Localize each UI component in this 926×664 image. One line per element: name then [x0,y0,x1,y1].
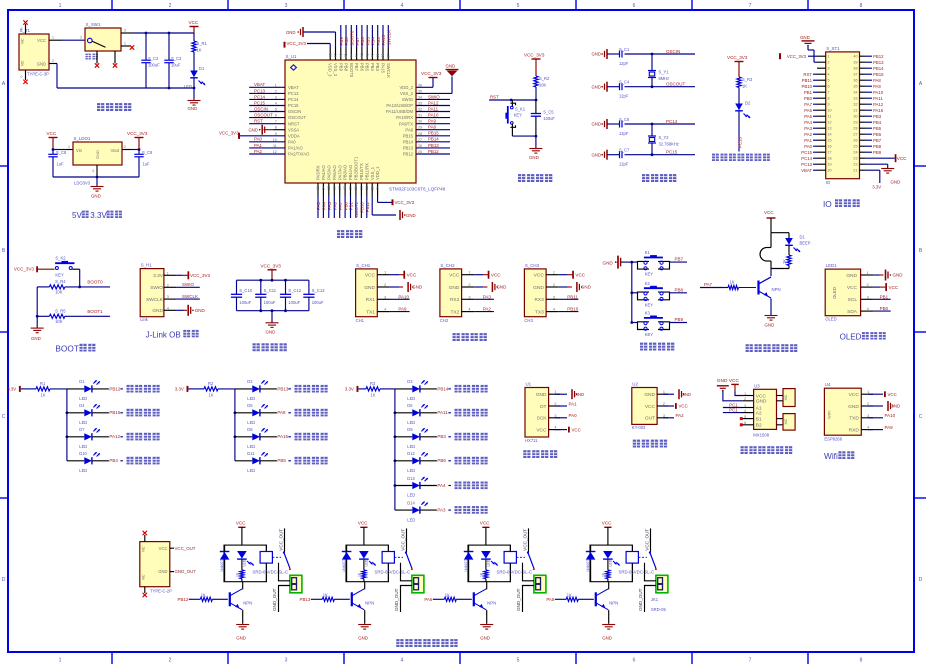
svg-text:32: 32 [853,103,857,107]
svg-text:GND: GND [446,63,456,68]
svg-text:LED: LED [407,396,415,401]
svg-text:LED: LED [243,559,247,566]
svg-text:PA10/RX: PA10/RX [396,115,413,120]
svg-text:1K: 1K [371,393,376,398]
svg-text:GND: GND [591,152,601,157]
svg-text:K1: K1 [645,250,651,255]
svg-text:VSSA: VSSA [288,127,299,132]
svg-text:D: D [919,577,923,583]
pushbutton K2 [55,262,74,264]
svg-text:PB3: PB3 [376,37,381,46]
connector JK (green) [412,575,424,593]
svg-text:KEY: KEY [55,272,64,277]
svg-text:GND: GND [846,273,857,279]
capacitor C8 [52,148,55,151]
CH1 pin3 net PA10 [390,298,410,300]
svg-text:CH3: CH3 [524,318,533,323]
svg-text:PA6: PA6 [804,108,812,113]
svg-text:7: 7 [275,120,277,124]
svg-text:PA8: PA8 [428,125,437,130]
svg-text:GND: GND [800,35,810,40]
svg-text:MX1508: MX1508 [753,433,770,438]
net PA8 [260,412,277,414]
OLED pin3 PB1 [874,298,891,300]
svg-text:PB4: PB4 [370,63,375,72]
svg-text:IO: IO [823,199,832,209]
resistor R3 [737,77,741,88]
U4 pin1 VCC [868,393,883,395]
svg-text:31: 31 [853,109,857,113]
LED D1 BEEP [788,233,790,238]
svg-text:GND_OUT: GND_OUT [638,588,643,611]
ST1 pin 23 to VCC [865,157,895,159]
svg-text:LED: LED [487,559,491,566]
LED D4 [67,412,84,414]
svg-text:5: 5 [275,108,277,112]
emitter wire to ground [608,610,610,624]
svg-text:4: 4 [401,658,404,664]
svg-text:WIFI: WIFI [827,411,832,419]
caption 滤波电路 [253,343,260,351]
svg-text:3: 3 [384,295,386,299]
svg-text:1: 1 [167,271,169,275]
svg-text:PB15: PB15 [873,72,884,77]
svg-text:45: 45 [344,54,348,58]
svg-text:GND_OUT: GND_OUT [516,588,521,611]
header ST1 [826,52,860,179]
caption 开关 [86,54,91,60]
svg-text:1: 1 [554,390,556,394]
svg-text:SWIO: SWIO [182,282,194,287]
svg-text:VCC: VCC [449,273,460,279]
motor connector B [777,418,784,420]
wire T1 to SW1 [62,39,85,41]
CH2 pin3 net PA3 [474,298,494,300]
svg-text:PA7: PA7 [704,282,713,287]
svg-text:PA5: PA5 [546,597,555,602]
svg-text:11: 11 [828,115,832,119]
svg-text:SRD-05VDC-SL-C: SRD-05VDC-SL-C [497,570,533,575]
svg-text:PA9: PA9 [428,119,437,124]
relay box outline [224,545,266,582]
svg-text:VCC: VCC [645,404,656,410]
svg-text:46: 46 [339,54,343,58]
U1 pin1 GND [555,393,567,395]
svg-text:8: 8 [860,658,863,664]
svg-text:LED: LED [79,468,87,473]
svg-text:VCC: VCC [47,131,57,136]
T1 pin 1 VCC wire [49,39,62,41]
buzzer BEEP [770,233,772,248]
svg-text:S_H1: S_H1 [141,263,153,268]
svg-text:12pF: 12pF [619,162,629,167]
svg-text:PA0: PA0 [254,137,263,142]
keys left rail [631,262,633,322]
svg-text:NC: NC [141,546,146,552]
caption 红灯电路 [127,385,134,393]
svg-text:BEEP: BEEP [800,241,811,246]
svg-text:PA7: PA7 [804,102,812,107]
svg-text:GND: GND [358,635,368,640]
svg-text:S_C10: S_C10 [239,288,252,293]
svg-text:100uF: 100uF [543,116,555,121]
svg-text:PA10: PA10 [398,294,409,299]
svg-text:SCL: SCL [848,297,858,303]
svg-text:1: 1 [867,390,869,394]
OLED pin2 VCC [874,286,880,288]
CH1 pin1 VCC [390,274,399,276]
U3 pin6 unconnected [742,424,754,426]
net PB9 [670,322,688,324]
svg-text:VSS_1: VSS_1 [370,166,375,180]
svg-text:1K: 1K [201,592,206,597]
svg-text:D5: D5 [247,403,253,408]
caption 绿灯电路 [127,433,134,441]
svg-text:ESP8266: ESP8266 [824,436,842,441]
ST1 pin 22 to GND [865,163,888,165]
caption 黄灯电路 [295,409,302,417]
CH3 pin3 net PB11 [559,298,579,300]
svg-text:SCK: SCK [537,416,548,422]
svg-text:OSCIN: OSCIN [666,49,680,54]
svg-text:PA12: PA12 [428,100,439,105]
svg-text:PB0: PB0 [343,201,348,210]
caption 黄灯电路 [127,409,134,417]
wire relay switch to connector [401,563,412,581]
svg-text:VCC_3V3: VCC_3V3 [395,200,415,205]
transistor NPN (relay) [595,592,597,606]
svg-text:3: 3 [92,169,94,173]
svg-text:LED: LED [407,420,415,425]
svg-text:PA0: PA0 [288,139,296,144]
U4 pin4 PA9 [868,429,883,431]
svg-text:GND: GND [158,569,167,574]
svg-text:VCC: VCC [572,427,581,432]
svg-text:GND: GND [529,155,539,160]
svg-text:PA1: PA1 [804,138,812,143]
svg-text:Vout: Vout [111,148,120,153]
svg-text:GND: GND [95,150,100,159]
svg-text:11: 11 [273,144,277,148]
svg-text:18: 18 [828,157,832,161]
svg-text:GND_OUT: GND_OUT [272,588,277,611]
LED D2 [235,388,252,390]
svg-text:38: 38 [381,54,385,58]
svg-text:PB4: PB4 [371,37,376,46]
svg-text:PB14: PB14 [437,386,449,391]
svg-text:GND: GND [364,285,375,291]
svg-text:S_R3: S_R3 [742,77,753,82]
svg-text:OLED: OLED [840,333,862,342]
svg-text:2: 2 [867,283,869,287]
svg-text:1: 1 [663,390,665,394]
svg-text:15: 15 [828,139,832,143]
svg-text:37: 37 [386,54,390,58]
svg-text:D: D [2,577,6,583]
base resistor 1K [555,598,567,600]
svg-text:PC15: PC15 [666,150,678,155]
svg-text:PB15: PB15 [109,410,121,415]
svg-text:GND: GND [765,323,775,328]
svg-text:PB12: PB12 [873,54,884,59]
capacitor C3 [168,33,170,60]
svg-text:S_LDO1: S_LDO1 [74,136,91,141]
svg-text:PA2: PA2 [676,413,685,418]
MCU U1 STM32F103C6T6 [285,60,416,183]
relay switch [406,528,408,552]
wire K2 to BOOT0 [72,268,79,270]
svg-text:2: 2 [124,145,126,149]
H1 pin3 SWCLK [176,298,200,300]
svg-text:PB12: PB12 [109,386,121,391]
svg-text:VSS_2: VSS_2 [400,91,414,96]
svg-text:3.3V: 3.3V [872,185,881,190]
svg-text:PB3: PB3 [437,434,446,439]
svg-text:4: 4 [468,308,470,312]
net PB3 [420,436,437,438]
svg-text:1: 1 [124,41,126,45]
U1 pin4 VCC [555,429,567,431]
svg-text:VDD_1: VDD_1 [375,166,380,180]
relay switch [650,528,652,552]
svg-text:PA10: PA10 [873,90,884,95]
T1 bottom pin with no-connect [25,70,27,80]
svg-text:4: 4 [828,73,830,77]
svg-text:23: 23 [853,157,857,161]
svg-text:PB2/BOOT1: PB2/BOOT1 [354,156,359,180]
transistor NPN (relay) [229,592,231,606]
U3 pin2 wire to GND [723,391,742,401]
svg-text:PA12: PA12 [109,434,120,439]
svg-text:B1: B1 [756,417,762,423]
frame row ticks [0,165,8,167]
frame column ticks [111,0,113,10]
MCU pin 8 VSSA ground [264,129,274,131]
svg-text:GND: GND [893,273,904,278]
svg-text:GND: GND [848,404,859,410]
svg-text:SWCLK: SWCLK [182,294,198,299]
svg-text:3: 3 [867,414,869,418]
relay box outline [468,545,510,582]
svg-text:1K: 1K [602,572,606,577]
header CH2 [440,269,462,317]
svg-text:100uF: 100uF [148,63,160,68]
svg-text:2: 2 [52,59,54,63]
svg-text:1K: 1K [197,48,202,53]
svg-text:NPN: NPN [365,601,374,606]
H1 pin4 GND [176,309,183,311]
transistor NPN (relay) [473,592,475,606]
svg-text:VCC: VCC [189,20,199,25]
relay LED [603,551,613,559]
svg-text:12: 12 [828,121,832,125]
svg-text:S_C13: S_C13 [312,288,325,293]
svg-text:S_R4: S_R4 [55,279,66,284]
svg-text:PC14: PC14 [288,97,299,102]
svg-text:LED: LED [609,559,613,566]
reset bottom rail [512,135,536,137]
VSS_1 to GND (bottom) [371,196,373,216]
svg-text:BOOT1: BOOT1 [354,201,359,216]
caption 蓝灯电路 [127,457,134,465]
svg-text:VCC: VCC [575,272,585,277]
svg-text:PC15: PC15 [254,100,266,105]
svg-text:20: 20 [828,169,832,173]
svg-text:1K: 1K [41,393,46,398]
svg-text:13: 13 [316,186,320,190]
svg-text:OSCIN: OSCIN [254,106,268,111]
svg-text:GND: GND [591,122,601,127]
svg-text:VCC: VCC [365,273,376,279]
svg-text:GND: GND [891,404,901,409]
svg-text:PB12: PB12 [178,597,189,602]
U1 pin2 PA1 [555,405,567,407]
svg-text:PA11: PA11 [437,410,448,415]
svg-text:25: 25 [418,150,422,154]
svg-text:PB12: PB12 [428,149,439,154]
svg-text:D1: D1 [199,66,205,71]
svg-text:10uF: 10uF [171,63,181,68]
svg-text:VCC_3V3: VCC_3V3 [127,131,148,136]
svg-text:PA0: PA0 [569,413,578,418]
svg-text:1K: 1K [358,572,362,577]
svg-text:STM32F103C6T6_LQFP48: STM32F103C6T6_LQFP48 [389,187,446,192]
LED D13 [395,485,412,487]
pushbutton K2 [632,292,638,294]
svg-text:TXD: TXD [849,416,859,422]
svg-text:3: 3 [275,95,277,99]
CH2 pin4 net PA2 [474,311,494,313]
svg-text:PA3: PA3 [804,126,812,131]
svg-text:S_K2: S_K2 [55,256,66,261]
resistor R2 1K [204,387,218,391]
wire relay switch to connector [523,563,534,581]
svg-text:100uF: 100uF [288,300,300,305]
CH2 pin1 VCC [474,274,483,276]
svg-text:2: 2 [167,283,169,287]
CH1 pin4 net PA9 [390,311,410,313]
U2 pin1 GND [663,393,674,395]
svg-text:VCC: VCC [536,428,547,434]
svg-text:VCC_OUT: VCC_OUT [279,529,284,551]
svg-text:3: 3 [285,3,288,9]
svg-text:PB10: PB10 [360,201,365,212]
svg-text:1K: 1K [782,259,787,264]
relay coil [265,545,267,551]
T1 top pin with no-connect [25,24,27,34]
svg-text:D11: D11 [247,451,255,456]
svg-text:PA4/AO: PA4/AO [321,164,326,180]
svg-text:S_Y2: S_Y2 [659,135,670,140]
svg-text:7: 7 [749,658,752,664]
svg-text:3.3V: 3.3V [345,386,354,391]
svg-text:SRD-05VDC-SL-C: SRD-05VDC-SL-C [619,570,655,575]
U1 pin3 PA0 [555,417,567,419]
svg-text:U3: U3 [754,383,760,388]
svg-text:1K: 1K [236,572,240,577]
svg-text:GND_OUT: GND_OUT [175,569,197,574]
MCU top pins [329,48,331,61]
svg-text:2: 2 [169,3,172,9]
svg-text:NC: NC [141,574,146,580]
svg-text:12pF: 12pF [619,61,629,66]
svg-text:36: 36 [418,83,422,87]
svg-text:PB4: PB4 [109,458,118,463]
svg-text:S_K1: S_K1 [515,107,526,112]
svg-text:GND: GND [891,180,901,185]
caption 绿灯电路 [455,433,462,441]
MCU bottom pins [317,183,319,196]
svg-text:PA8: PA8 [873,78,881,83]
OLED pin4 PB0 [874,310,891,312]
svg-text:PC15: PC15 [288,103,299,108]
svg-text:16: 16 [332,186,336,190]
svg-text:LED: LED [247,396,255,401]
CH3 pin4 net PB10 [559,311,579,313]
header LED1 (OLED) [825,269,860,316]
collector wire [485,582,487,589]
svg-text:KEY: KEY [514,112,522,117]
LED D9 [395,436,412,438]
svg-text:PA5: PA5 [804,114,812,119]
svg-text:12pF: 12pF [619,131,629,136]
svg-text:26: 26 [853,139,857,143]
svg-text:OLED: OLED [832,287,837,299]
svg-text:12pF: 12pF [619,94,629,99]
U3 pin3 net PC1 [723,407,742,409]
svg-text:GND: GND [591,84,601,89]
svg-text:OSCOUT: OSCOUT [666,82,686,87]
svg-text:SWCLK: SWCLK [386,63,391,78]
caption 蓝灯电路 [455,457,462,465]
net GND_OUT (rotated) wire [279,586,290,613]
svg-text:D12: D12 [407,451,415,456]
svg-text:PB7: PB7 [354,63,359,72]
svg-text:PB7: PB7 [355,37,360,46]
LED D3 [395,388,412,390]
svg-text:PC13: PC13 [288,91,299,96]
svg-text:PB3: PB3 [375,63,380,72]
svg-text:PB13: PB13 [403,146,414,151]
svg-text:GND: GND [37,61,46,66]
svg-text:PA2: PA2 [254,149,263,154]
svg-text:4: 4 [553,308,555,312]
svg-text:34: 34 [853,91,857,95]
svg-text:GND: GND [717,378,728,384]
svg-text:25: 25 [853,145,857,149]
svg-text:PA3: PA3 [483,294,492,299]
net PA3 [420,509,437,511]
svg-text:GND: GND [533,285,544,291]
svg-text:PC14: PC14 [254,94,266,99]
svg-text:3.3V: 3.3V [90,211,107,220]
svg-text:9: 9 [275,132,277,136]
net RST wire [489,99,536,101]
svg-text:BOOT0: BOOT0 [87,280,103,285]
relay LED [481,551,491,559]
T2 bottom pin no-connect [144,587,146,593]
svg-text:100uF: 100uF [239,300,251,305]
svg-text:PB6: PB6 [360,37,365,46]
svg-text:D10: D10 [79,451,87,456]
bottom ground rail [49,63,57,65]
ST1 left pin wires [817,55,826,57]
caption 霍尔模块 [633,440,640,448]
ST1 pin 21 to 3.3V [865,169,880,171]
svg-text:PB1: PB1 [880,294,889,299]
svg-text:DT: DT [540,404,546,410]
caption 红灯电路 [455,482,462,490]
